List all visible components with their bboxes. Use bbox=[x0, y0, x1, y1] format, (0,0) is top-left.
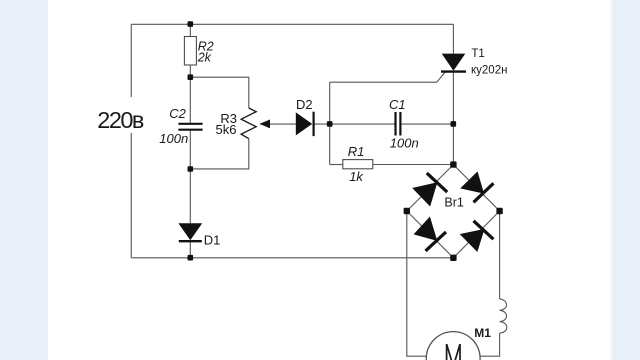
junction bridge right vertex bbox=[496, 208, 502, 214]
wire node B to D1 bbox=[189, 169, 191, 223]
svg-text:5k6: 5k6 bbox=[216, 122, 237, 137]
resistor R3 zigzag bbox=[241, 108, 256, 139]
wire C1 right plate to node D bbox=[401, 123, 453, 125]
svg-text:220в: 220в bbox=[97, 107, 144, 133]
bridge diode bottom-right bbox=[461, 221, 494, 251]
diode D2 triangle bbox=[296, 112, 312, 135]
svg-text:T1: T1 bbox=[471, 48, 484, 60]
thyristor T1 cathode bar bbox=[441, 70, 466, 72]
wire C2 top lead bbox=[189, 77, 191, 123]
capacitor C1 plates bbox=[396, 112, 401, 136]
left background panel bbox=[0, 0, 48, 360]
wire D1 cathode lead bbox=[189, 241, 191, 258]
wire node A to R3 top bbox=[190, 77, 249, 108]
svg-text:100n: 100n bbox=[159, 131, 188, 146]
junction node B (C2/R3/D1) bbox=[188, 166, 194, 172]
junction bridge bottom vertex bbox=[450, 255, 456, 261]
junction bridge top vertex bbox=[450, 161, 456, 167]
wire bridge right vertex down to coil bbox=[499, 211, 501, 299]
bridge diode bottom-left bbox=[415, 218, 447, 251]
junction node D (C1/T1 cathode line) bbox=[451, 121, 457, 127]
wire bridge left vertex down to motor bbox=[407, 211, 427, 356]
wire R3 wiper to D2 anode bbox=[260, 123, 296, 125]
wire bridge edge top-right bbox=[453, 165, 499, 211]
junction bridge left vertex bbox=[404, 208, 410, 214]
wire left rail upper bbox=[130, 24, 132, 97]
svg-text:C2: C2 bbox=[169, 106, 186, 121]
wire gate branch vertical bbox=[329, 82, 331, 164]
svg-text:Br1: Br1 bbox=[444, 196, 464, 210]
motor M letter bbox=[447, 344, 460, 360]
wire node C to C1 left plate bbox=[330, 123, 395, 125]
svg-text:D1: D1 bbox=[204, 232, 221, 247]
wire D2 cathode to node C bbox=[314, 123, 330, 125]
R3 wiper arrowhead bbox=[260, 120, 271, 129]
svg-text:C1: C1 bbox=[389, 97, 406, 112]
junction node C (D2/C1/gate branch) bbox=[327, 121, 333, 127]
wire bridge edge bottom-left bbox=[407, 211, 454, 258]
junction node top rail / R2 bbox=[188, 21, 194, 27]
wire R2 bottom lead bbox=[189, 65, 191, 77]
svg-text:100n: 100n bbox=[390, 136, 419, 151]
capacitor C2 plates bbox=[178, 124, 202, 130]
thyristor T1 triangle bbox=[442, 54, 466, 71]
svg-text:R1: R1 bbox=[348, 144, 365, 159]
junction node A (R2/C2/R3) bbox=[188, 74, 194, 80]
svg-text:2k: 2k bbox=[197, 50, 212, 64]
wire left rail lower bbox=[130, 133, 132, 258]
svg-text:D2: D2 bbox=[296, 97, 313, 112]
wire R1 right lead bbox=[373, 164, 454, 166]
right background panel bbox=[609, 0, 640, 360]
bridge diode top-right bbox=[461, 172, 493, 202]
wire gate line to thyristor bbox=[330, 72, 446, 83]
wire T1 cathode down to bridge bbox=[452, 71, 454, 164]
diode D2 cathode bar bbox=[313, 112, 315, 136]
wire R3 bottom to node B bbox=[190, 139, 249, 169]
wire C2 bottom lead bbox=[189, 131, 191, 169]
junction node D1 / bottom rail bbox=[188, 255, 194, 261]
wire bridge edge bottom-right bbox=[453, 211, 499, 258]
wire coil bottom to motor bbox=[480, 333, 500, 356]
bridge diode top-left bbox=[413, 173, 447, 206]
motor M1 circle bbox=[426, 332, 480, 360]
diode D1 cathode bar bbox=[179, 240, 202, 242]
wire R2 top lead bbox=[189, 24, 191, 36]
resistor R2 body bbox=[184, 37, 196, 66]
svg-text:M1: M1 bbox=[474, 326, 491, 340]
wire R1 left lead bbox=[330, 164, 343, 166]
wire bottom rail bbox=[131, 257, 453, 259]
wire top rail bbox=[131, 23, 453, 25]
svg-text:1k: 1k bbox=[349, 169, 364, 184]
wire T1 anode lead bbox=[452, 24, 454, 53]
resistor R1 body bbox=[343, 160, 373, 169]
diode D1 triangle bbox=[178, 223, 202, 240]
inductor L coil bbox=[500, 299, 507, 333]
wire bridge edge top-left bbox=[407, 165, 454, 211]
svg-text:ку202н: ку202н bbox=[471, 64, 507, 76]
